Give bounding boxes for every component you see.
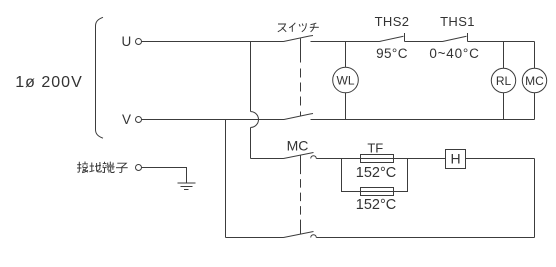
svg-text:MC: MC	[525, 74, 544, 88]
svg-text:0~40°C: 0~40°C	[429, 46, 479, 61]
svg-text:U: U	[122, 34, 132, 49]
svg-text:MC: MC	[287, 138, 309, 154]
svg-text:THS1: THS1	[440, 14, 475, 29]
svg-text:1ø 200V: 1ø 200V	[15, 74, 82, 91]
svg-text:WL: WL	[337, 73, 355, 87]
svg-text:RL: RL	[496, 74, 512, 88]
svg-text:V: V	[122, 112, 131, 127]
svg-text:H: H	[450, 151, 460, 167]
svg-text:TF: TF	[367, 140, 383, 155]
svg-text:95°C: 95°C	[376, 46, 408, 61]
svg-text:THS2: THS2	[375, 14, 410, 29]
svg-text:152°C: 152°C	[356, 165, 396, 181]
svg-text:152°C: 152°C	[356, 197, 396, 213]
